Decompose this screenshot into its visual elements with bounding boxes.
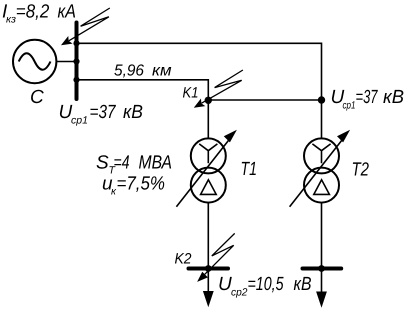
wire link K1 to right branch — [208, 99, 321, 101]
wire T2 to load bus — [321, 203, 323, 292]
svg-text:K1: K1 — [183, 84, 199, 101]
svg-text:=37: =37 — [90, 102, 117, 123]
wire T1 to load bus — [207, 203, 209, 292]
generator C — [13, 40, 56, 83]
node K2 junction — [205, 265, 212, 272]
T2 tap-changer arrow — [290, 138, 344, 207]
svg-text:ср1: ср1 — [343, 100, 356, 112]
T1 delta winding — [201, 180, 217, 195]
short-circuit arrow at K1 — [195, 70, 243, 107]
label uk value — [102, 174, 165, 198]
svg-text:U: U — [218, 274, 232, 295]
label Ucp1 left — [59, 102, 144, 127]
svg-text:кз: кз — [6, 14, 16, 26]
node on bus: generator — [73, 58, 79, 64]
svg-text:5,96: 5,96 — [114, 62, 144, 79]
svg-text:=8,2: =8,2 — [16, 2, 50, 23]
label Ucp2 — [218, 274, 312, 299]
svg-text:ср1: ср1 — [71, 115, 88, 127]
svg-text:кА: кА — [58, 2, 77, 23]
svg-text:МВА: МВА — [139, 152, 173, 173]
svg-text:=7,5%: =7,5% — [117, 174, 166, 195]
load busbar right — [303, 267, 342, 271]
svg-text:кВ: кВ — [383, 87, 404, 108]
node on bus: top line — [73, 40, 79, 46]
node right load junction — [318, 265, 325, 272]
svg-text:кВ: кВ — [294, 274, 312, 295]
svg-text:T2: T2 — [352, 160, 370, 181]
svg-text:=37: =37 — [356, 87, 379, 108]
svg-text:кВ: кВ — [123, 102, 143, 123]
svg-text:=10,5: =10,5 — [248, 274, 284, 295]
svg-text:=4: =4 — [114, 152, 130, 173]
label ST value — [96, 152, 172, 176]
wire top line to right vertical — [77, 43, 322, 138]
T2 wye winding — [312, 144, 330, 163]
label Ik3 value — [2, 2, 76, 26]
label line length 5,96 km — [114, 62, 172, 79]
svg-text:K2: K2 — [175, 251, 193, 268]
svg-text:км: км — [152, 62, 172, 79]
wire generator to bus — [56, 61, 76, 63]
busbar (source) — [75, 23, 79, 100]
svg-text:S: S — [96, 152, 109, 173]
svg-text:ср2: ср2 — [231, 287, 248, 299]
svg-text:С: С — [30, 87, 44, 108]
node K1 junction — [205, 97, 212, 104]
short-circuit arrow at K2 — [198, 233, 235, 281]
short-circuit arrow at source bus — [62, 8, 109, 44]
load arrow right — [316, 292, 327, 308]
load busbar left — [189, 267, 229, 271]
node on bus: line 2 — [73, 77, 79, 83]
label Ucp1 right — [331, 87, 405, 112]
svg-text:T1: T1 — [241, 159, 258, 180]
node right branch junction — [318, 96, 325, 103]
transformer T2 — [304, 138, 339, 202]
wire 5,96 km line — [77, 80, 209, 139]
T2 delta winding — [314, 180, 330, 195]
transformer T1 — [191, 138, 226, 202]
T1 wye winding — [199, 144, 217, 163]
T1 tap-changer arrow — [176, 138, 230, 207]
load arrow left — [203, 291, 214, 307]
